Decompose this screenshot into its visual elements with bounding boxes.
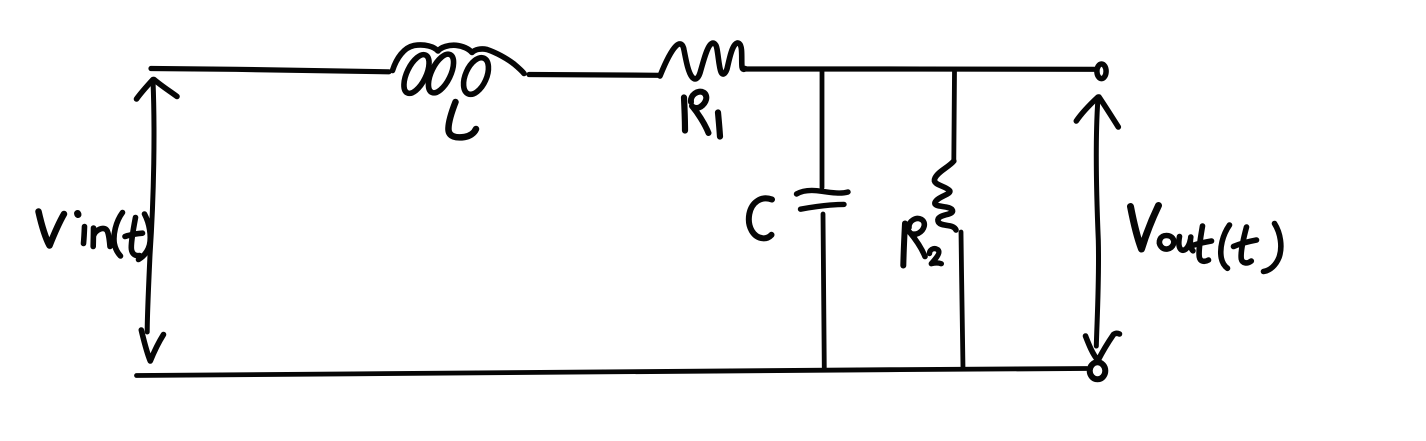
wire: R1 to output terminal (top rail): [746, 66, 1095, 72]
label Vout(t): [1131, 206, 1281, 272]
label R1: [684, 92, 720, 137]
label L (inductor value): [448, 102, 476, 137]
wire: R2 upper lead from top rail: [951, 71, 957, 161]
label C: [749, 198, 772, 238]
label R2: [903, 219, 941, 266]
wire: capacitor upper lead from top rail: [820, 71, 825, 188]
wire: R2 lower lead to bottom rail: [961, 232, 963, 369]
wire: top-left horizontal from Vin arrow to inductor: [151, 69, 389, 72]
resistor R2 (vertical squiggle): [934, 161, 956, 230]
node: output terminal bottom (open circle): [1090, 362, 1106, 379]
Vin measurement arrow (double-headed, left side): [137, 80, 178, 362]
label Vin(t): [39, 212, 151, 260]
wire: between inductor and R1: [529, 72, 659, 78]
capacitor C plates: [797, 190, 849, 209]
resistor R1 (hand zigzag): [660, 43, 745, 79]
node: output terminal top (open circle): [1097, 64, 1106, 79]
wire: capacitor lower lead to bottom rail: [823, 214, 824, 370]
wire: bottom rail: [137, 369, 1087, 376]
inductor L (coil): [393, 45, 525, 98]
Vout measurement arrow (double-headed, right side): [1076, 97, 1119, 361]
